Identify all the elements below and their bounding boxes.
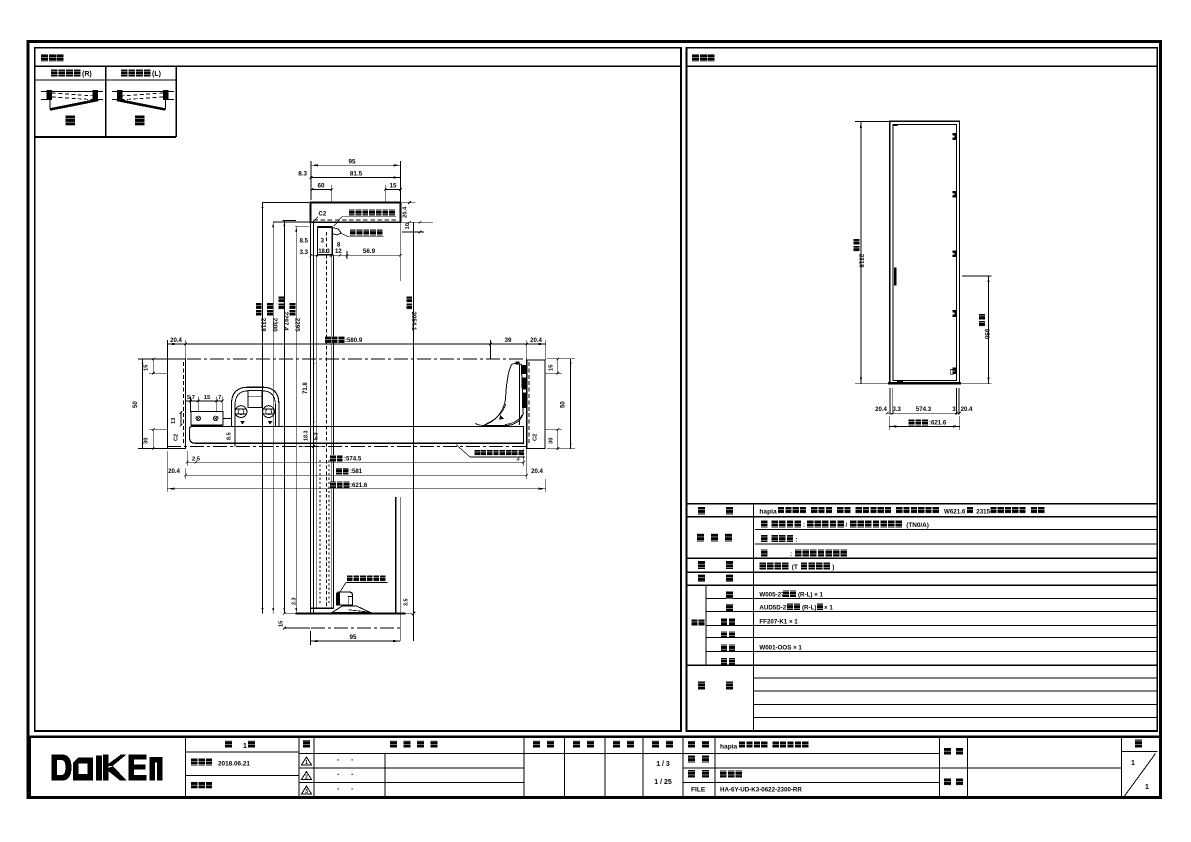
svg-text:2300: 2300 [271,318,278,332]
svg-text:50: 50 [560,401,566,408]
svg-text:15: 15 [389,183,397,190]
svg-text:20.4: 20.4 [170,337,182,344]
svg-text:C2: C2 [532,434,538,441]
svg-text:20.4: 20.4 [875,406,887,413]
svg-text:2318: 2318 [857,254,864,268]
svg-text:(R-L) × 1: (R-L) × 1 [798,591,823,598]
svg-text::: : [790,551,792,558]
svg-text:·: · [351,770,354,779]
svg-text:W001-OOS × 1: W001-OOS × 1 [759,645,802,652]
svg-text:3.5: 3.5 [404,599,410,607]
svg-text:2318: 2318 [260,318,267,332]
svg-text:71.8: 71.8 [303,382,309,394]
svg-text:2054.1: 2054.1 [410,312,417,331]
svg-text:18.3: 18.3 [304,431,310,442]
svg-text:1: 1 [1131,760,1135,767]
svg-text:574.3: 574.3 [916,406,932,413]
svg-text:): ) [832,564,834,571]
svg-text:hapia: hapia [720,743,738,750]
svg-text:7: 7 [218,395,221,401]
svg-text:3.3: 3.3 [300,250,309,256]
svg-text:60: 60 [317,183,325,190]
svg-text:95: 95 [349,634,357,641]
svg-text:8.5: 8.5 [226,432,232,440]
svg-text:C2: C2 [319,212,327,218]
svg-text:1: 1 [1145,784,1149,791]
svg-text:15: 15 [548,364,554,371]
svg-text:2018.06.21: 2018.06.21 [218,761,250,768]
svg-text:50: 50 [133,401,139,408]
svg-text:13: 13 [171,417,177,424]
svg-text::581: :581 [350,468,363,475]
svg-text:·: · [351,756,354,765]
svg-text:2.3: 2.3 [291,598,297,606]
svg-text:56.9: 56.9 [363,248,376,255]
svg-text:18.3: 18.3 [318,249,330,255]
svg-text:15: 15 [204,395,211,401]
svg-text:2: 2 [305,775,308,781]
svg-text:2297.4: 2297.4 [282,312,289,331]
svg-text:81.5: 81.5 [350,171,363,178]
svg-text::580.9: :580.9 [345,337,363,344]
svg-text:15: 15 [144,364,150,371]
svg-text:(T: (T [792,564,798,571]
svg-text:2315: 2315 [976,509,990,516]
svg-text:·: · [337,756,340,765]
svg-text:× 1: × 1 [824,604,833,611]
svg-text:8.3: 8.3 [298,171,307,178]
svg-text:W005-27: W005-27 [759,591,785,598]
svg-text::: : [795,537,797,544]
svg-text:/: / [846,522,848,529]
svg-text:2295: 2295 [293,318,300,332]
svg-text:1: 1 [243,743,247,750]
svg-text:hapia: hapia [759,509,777,516]
svg-text::574.5: :574.5 [344,455,362,462]
svg-text:AUD5D-27: AUD5D-27 [759,604,790,611]
svg-text:·: · [351,785,354,794]
svg-text:20.4: 20.4 [530,337,542,344]
svg-text:30: 30 [548,438,554,444]
svg-text:20.4: 20.4 [531,468,543,475]
svg-text:39: 39 [505,337,512,344]
svg-text:1 / 3: 1 / 3 [656,761,670,768]
svg-text::621.6: :621.6 [350,482,368,489]
svg-text:5.7: 5.7 [187,395,195,401]
svg-text:95: 95 [348,158,356,165]
svg-text:30: 30 [144,438,150,444]
svg-text::: : [803,522,805,529]
svg-text:(TN0/A): (TN0/A) [906,522,929,529]
svg-text:20.4: 20.4 [403,206,409,218]
svg-text:C2: C2 [173,434,179,441]
svg-text::621.6: :621.6 [929,420,947,427]
svg-text:20.4: 20.4 [168,468,180,475]
svg-text:W621.6: W621.6 [944,509,966,516]
svg-text:FF207-K1 × 1: FF207-K1 × 1 [759,618,798,625]
svg-text:3: 3 [305,789,308,795]
svg-text:HA-6Y-UD-K3-0622-2300-RR: HA-6Y-UD-K3-0622-2300-RR [720,787,802,794]
svg-text:·: · [337,770,340,779]
svg-text:8.5: 8.5 [300,238,309,244]
svg-text:(L): (L) [152,71,161,78]
svg-text:10: 10 [405,223,411,229]
svg-text:15: 15 [279,621,285,627]
svg-text:1 / 25: 1 / 25 [654,779,672,786]
svg-text:(R-L): (R-L) [802,604,816,611]
svg-text:950: 950 [983,329,990,340]
svg-text:C2: C2 [950,368,956,375]
svg-text:·: · [337,785,340,794]
svg-text:5.3: 5.3 [313,433,319,441]
svg-text:(R): (R) [82,71,92,78]
svg-text:1: 1 [305,760,308,766]
svg-text:20.4: 20.4 [961,406,973,413]
svg-text:FILE: FILE [691,787,706,794]
